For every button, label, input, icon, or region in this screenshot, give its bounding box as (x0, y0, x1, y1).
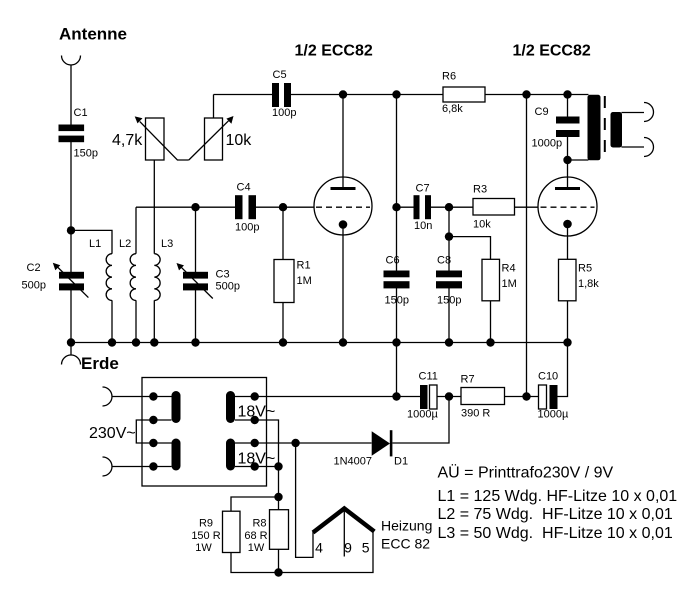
svg-text:C8: C8 (437, 255, 451, 267)
wire R7 to C10 (505, 396, 539, 398)
junction node H2 (274, 493, 282, 501)
wire C6 to ground rail (396, 288, 398, 343)
wire C11 to R7 (437, 396, 461, 398)
svg-text:150p: 150p (74, 148, 98, 160)
top rail middle segment (291, 94, 443, 96)
phone jack terminal bottom (644, 138, 654, 157)
wire node D2 to R4 (449, 237, 491, 260)
inductor L2 (130, 254, 136, 301)
heater symbol roof (313, 509, 374, 533)
wire R9 bottom to heater return rail (231, 532, 373, 573)
capacitor C4 (235, 195, 256, 219)
junction node E B+ (522, 392, 530, 400)
output transformer AU primary (588, 95, 601, 161)
wire R5 to ground rail (567, 301, 569, 343)
triode V1 (314, 177, 372, 235)
wire S1 bottom to heater dropper (235, 420, 279, 510)
wire R4 to ground rail (490, 301, 492, 343)
potentiometer P2 10k (189, 116, 234, 160)
pin TR1 S2b (251, 462, 259, 470)
junction node E0 (392, 392, 400, 400)
junction node D grid (445, 203, 453, 211)
wire ground rail down to node E0 (396, 343, 398, 397)
svg-text:ECC 82: ECC 82 (381, 536, 430, 552)
pin TR1 P1b (149, 416, 157, 424)
wire grid line L2 to C4 (136, 206, 235, 208)
wire node B to C3 (195, 207, 197, 272)
svg-text:R6: R6 (442, 71, 456, 83)
svg-text:C11: C11 (419, 371, 438, 383)
capacitor C8 (436, 271, 462, 289)
wire 18V winding S1 top to ground node (235, 396, 397, 398)
junction B+ rail (522, 90, 530, 98)
junction node E1 C11 (445, 392, 453, 400)
svg-text:230V~: 230V~ (89, 425, 136, 442)
triode V2 (538, 177, 597, 236)
wire B+ vertical top rail to node E (526, 95, 528, 397)
wire ground rail to C10 minus (558, 343, 568, 397)
wire C9 to V2 anode (567, 137, 569, 187)
junction heater return (274, 568, 282, 576)
wire R8 bottom to heater return (278, 549, 280, 572)
wire C1 to node A1 (70, 142, 72, 230)
svg-text:18V~: 18V~ (238, 451, 276, 468)
230V terminal top (103, 387, 113, 406)
junction C6 ground (392, 338, 400, 346)
pin TR1 P2a (149, 439, 157, 447)
junction node F anode V2 (563, 156, 571, 164)
junction node H (274, 462, 282, 470)
svg-text:1M: 1M (502, 278, 517, 290)
svg-text:R5: R5 (578, 263, 592, 275)
junction R4 ground (486, 338, 494, 346)
svg-text:C3: C3 (216, 269, 230, 281)
svg-text:4,7k: 4,7k (112, 132, 143, 149)
svg-text:C9: C9 (535, 106, 549, 118)
wire L1 bottom to ground rail (111, 300, 113, 342)
pin TR1 P1a (149, 392, 157, 400)
wire R3 to tube V2 grid (515, 206, 539, 208)
svg-text:D1: D1 (394, 456, 408, 468)
wire V1 anode to top rail (342, 95, 344, 188)
wire node H2 to R9 top (231, 497, 279, 511)
svg-text:L1: L1 (89, 238, 101, 250)
junction ground rail Erde (67, 338, 75, 346)
wire node A1 to C2 (70, 230, 72, 272)
junction R5 ground (563, 338, 571, 346)
capacitor C11 (420, 385, 437, 409)
resistor R6 (443, 87, 485, 102)
svg-text:6,8k: 6,8k (442, 103, 463, 115)
svg-text:C5: C5 (273, 69, 287, 81)
wire node E0 to C11 (397, 396, 421, 398)
wire C4 to tube V1 grid (256, 206, 315, 208)
svg-text:150 R: 150 R (191, 530, 220, 542)
top rail right segment (485, 94, 589, 96)
svg-text:18V~: 18V~ (238, 403, 276, 420)
wire ground rail to Erde terminal (70, 343, 72, 356)
wire L3 bottom to ground rail (153, 300, 155, 342)
wire primary series bracket (136, 420, 171, 443)
resistor R3 (473, 199, 515, 216)
svg-text:L1 = 125 Wdg. HF-Litze 10 x 0,: L1 = 125 Wdg. HF-Litze 10 x 0,01 (438, 488, 678, 505)
wire heater pin 9 (343, 510, 345, 557)
junction C3 ground (191, 338, 199, 346)
svg-text:4: 4 (315, 540, 323, 556)
junction L3 ground (150, 338, 158, 346)
wire R1 to ground rail (282, 303, 284, 343)
inductor L3 (154, 254, 160, 301)
resistor R5 (559, 259, 577, 301)
svg-text:1000µ: 1000µ (538, 409, 569, 421)
svg-text:L3 = 50 Wdg. HF-Litze 10 x 0,: L3 = 50 Wdg. HF-Litze 10 x 0,01 (438, 525, 673, 542)
wire 10k pot top to top rail (213, 95, 215, 119)
svg-text:C6: C6 (386, 255, 400, 267)
junction L2 ground (132, 338, 140, 346)
capacitor C9 (556, 117, 580, 138)
junction C9 rail (563, 90, 571, 98)
svg-text:L3: L3 (161, 238, 173, 250)
power transformer winding P2 (172, 439, 181, 471)
svg-text:10k: 10k (226, 132, 253, 149)
wire antenna to C1 (70, 65, 72, 125)
wire P1 bottom to L3 top (153, 160, 155, 254)
junction node B (191, 203, 199, 211)
svg-text:1,8k: 1,8k (578, 278, 599, 290)
svg-text:1000µ: 1000µ (407, 409, 438, 421)
svg-text:9: 9 (344, 540, 352, 556)
svg-text:R8: R8 (252, 518, 266, 530)
wire C3 to ground rail (195, 290, 197, 343)
svg-text:R9: R9 (199, 518, 213, 530)
svg-text:R7: R7 (461, 374, 475, 386)
svg-text:Erde: Erde (81, 354, 119, 373)
wire V2 cathode to R5 (567, 224, 569, 259)
output transformer AU core (604, 96, 606, 156)
svg-text:R4: R4 (502, 263, 516, 275)
wire output transformer secondary to phone jack bottom (622, 146, 645, 148)
svg-text:1000p: 1000p (532, 138, 563, 150)
power transformer winding S2 (226, 439, 235, 471)
power transformer TR1 box (142, 378, 267, 487)
junction L1 ground (108, 338, 116, 346)
svg-text:390 R: 390 R (461, 408, 490, 420)
svg-text:1W: 1W (248, 542, 265, 554)
svg-text:C2: C2 (27, 262, 41, 274)
wire L2 bottom to ground rail (135, 300, 137, 342)
junction node G1 (279, 203, 287, 211)
junction R1 ground (279, 338, 287, 346)
wire node F to output transformer primary bottom (568, 159, 589, 161)
svg-text:C10: C10 (538, 371, 558, 383)
svg-text:150p: 150p (385, 295, 409, 307)
230V terminal bottom (103, 457, 113, 476)
wire S2 top to diode D1 (235, 442, 372, 444)
wire heater feed node to pin 4 (296, 443, 313, 557)
svg-text:68 R: 68 R (244, 530, 267, 542)
svg-text:L2 = 75 Wdg. HF-Litze 10 x 0,: L2 = 75 Wdg. HF-Litze 10 x 0,01 (438, 506, 673, 523)
ground rail (71, 342, 568, 344)
junction node A1 (67, 226, 75, 234)
junction node C grid (392, 203, 400, 211)
svg-text:10n: 10n (414, 220, 432, 232)
svg-text:150p: 150p (437, 295, 461, 307)
wire C8 to ground rail (448, 288, 450, 343)
capacitor C1 (59, 125, 85, 143)
svg-text:5: 5 (362, 540, 370, 556)
wire top rail to C9 (567, 95, 569, 117)
top rail left segment (214, 94, 273, 96)
svg-text:Antenne: Antenne (59, 25, 127, 44)
wire node A1 to L1 top (71, 230, 112, 253)
antenna terminal (62, 56, 81, 66)
capacitor C6 (384, 271, 410, 289)
wire V1 cathode to ground rail (342, 225, 344, 343)
wire output transformer secondary to phone jack top (622, 112, 645, 114)
svg-text:500p: 500p (216, 281, 240, 293)
resistor R9 (223, 511, 241, 552)
Erde terminal (62, 355, 81, 365)
variable capacitor C3 (177, 263, 213, 299)
potentiometer P1 4,7k (135, 116, 189, 160)
capacitor C10 (539, 385, 558, 409)
svg-text:C4: C4 (237, 182, 251, 194)
junction heater feed (291, 439, 299, 447)
junction node D2 (445, 232, 453, 240)
wire node C to C7 (397, 206, 414, 208)
svg-text:C7: C7 (416, 183, 430, 195)
junction node C rail (392, 90, 400, 98)
output transformer AU secondary (611, 112, 623, 148)
pin TR1 S1b (251, 416, 259, 424)
capacitor C7 (414, 195, 432, 219)
pin TR1 S1a (251, 392, 259, 400)
inductor L1 (106, 254, 112, 301)
svg-text:100p: 100p (235, 222, 259, 234)
wire L2 top to grid line (135, 207, 137, 254)
wire S2 bottom to node H (235, 466, 279, 468)
resistor R7 (461, 388, 505, 405)
power transformer winding P1 (172, 391, 181, 423)
svg-text:100p: 100p (272, 107, 296, 119)
phone jack terminal top (644, 103, 654, 122)
resistor R1 (274, 260, 294, 303)
svg-text:AÜ = Printtrafo230V / 9V: AÜ = Printtrafo230V / 9V (438, 464, 614, 482)
pin TR1 S2a (251, 439, 259, 447)
resistor R4 (482, 259, 500, 301)
wire D1 cathode to C11 node (393, 397, 450, 444)
svg-text:R3: R3 (473, 183, 487, 195)
wire C7 to R3 (431, 206, 473, 208)
diode D1 (372, 430, 393, 456)
wire node C down to C6 (396, 95, 398, 271)
svg-text:10k: 10k (473, 218, 491, 230)
power transformer winding S1 (226, 391, 235, 423)
svg-text:1N4007: 1N4007 (334, 456, 373, 468)
svg-text:L2: L2 (119, 238, 131, 250)
svg-text:500p: 500p (22, 280, 46, 292)
variable capacitor C2 (53, 263, 89, 298)
wire 230V top terminal to primary winding P1 (112, 396, 172, 398)
wire node G1 to R1 (282, 207, 284, 259)
wire C2 to ground rail (70, 290, 72, 343)
wire 230V bottom terminal to primary winding P2 (112, 466, 172, 468)
resistor R8 (270, 510, 289, 550)
pin TR1 P2b (149, 462, 157, 470)
junction V1 cathode ground (339, 338, 347, 346)
svg-text:Heizung: Heizung (381, 518, 432, 534)
svg-text:R1: R1 (297, 260, 311, 272)
svg-text:C1: C1 (74, 107, 88, 119)
capacitor C5 (272, 83, 291, 107)
junction V1 anode rail (339, 90, 347, 98)
svg-text:1/2 ECC82: 1/2 ECC82 (295, 43, 373, 60)
junction C8 ground (445, 338, 453, 346)
svg-text:1W: 1W (195, 542, 212, 554)
svg-text:1/2 ECC82: 1/2 ECC82 (513, 43, 591, 60)
svg-text:1M: 1M (297, 275, 312, 287)
wire node D down to C8 (448, 207, 450, 270)
